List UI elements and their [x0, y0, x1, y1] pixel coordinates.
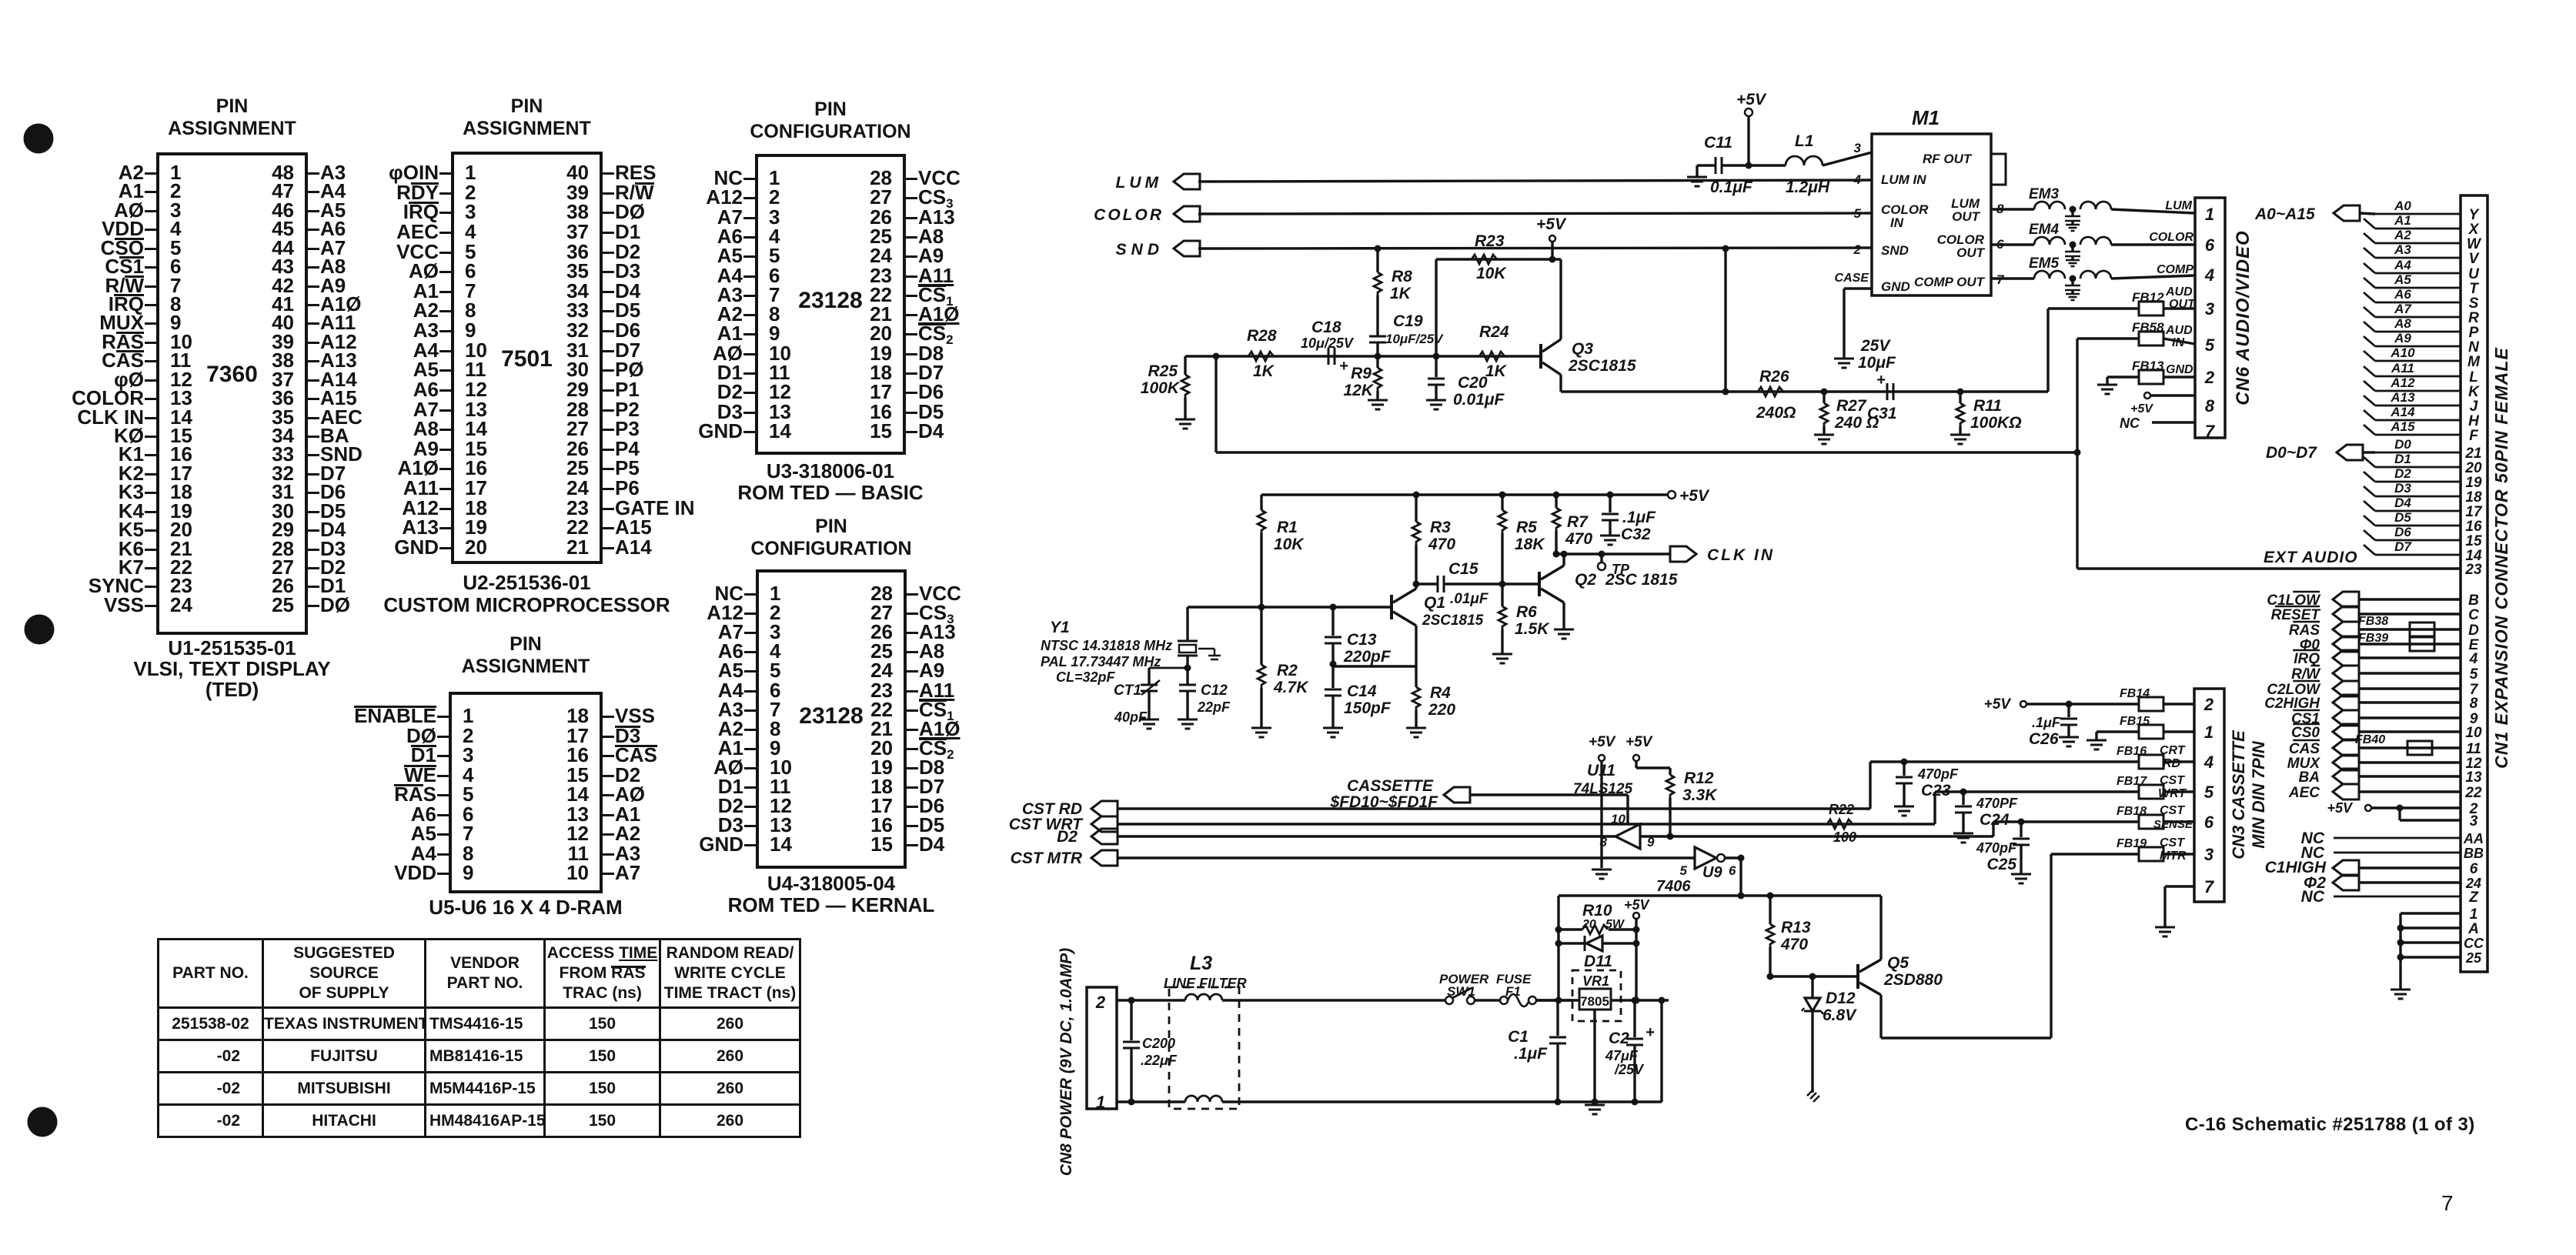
svg-text:470pF: 470pF	[1976, 840, 2017, 856]
svg-text:CC: CC	[2464, 936, 2484, 951]
svg-text:A3: A3	[2394, 242, 2411, 257]
svg-text:470PF: 470PF	[1976, 796, 2018, 811]
svg-text:5W: 5W	[1605, 918, 1625, 931]
svg-text:21: 21	[2464, 446, 2481, 462]
svg-text:NTSC 14.31818 MHz: NTSC 14.31818 MHz	[1041, 638, 1172, 653]
svg-text:.1μF: .1μF	[2032, 715, 2061, 730]
svg-text:4.7K: 4.7K	[1273, 679, 1309, 696]
svg-text:+: +	[1645, 1024, 1655, 1041]
svg-text:7: 7	[2205, 422, 2216, 441]
svg-text:+5V: +5V	[1625, 734, 1653, 750]
svg-text:1: 1	[2470, 906, 2478, 923]
svg-text:R24: R24	[1479, 323, 1509, 341]
svg-text:.1μF: .1μF	[1622, 509, 1656, 526]
svg-text:C32: C32	[1621, 526, 1651, 543]
svg-text:220pF: 220pF	[1343, 648, 1392, 666]
svg-text:CN6 AUDIO/VIDEO: CN6 AUDIO/VIDEO	[2233, 230, 2254, 405]
svg-text:FB39: FB39	[2358, 632, 2388, 645]
svg-text:C20: C20	[1458, 374, 1488, 392]
svg-text:A12: A12	[2390, 375, 2415, 390]
svg-text:Q1: Q1	[1424, 594, 1445, 612]
svg-text:1: 1	[2205, 205, 2214, 224]
svg-text:D2: D2	[2394, 466, 2411, 481]
svg-text:40pF: 40pF	[1114, 709, 1148, 725]
svg-text:.1μF: .1μF	[1514, 1045, 1548, 1063]
svg-text:10: 10	[2465, 725, 2482, 741]
svg-text:EM4: EM4	[2029, 222, 2060, 238]
svg-text:COMP OUT: COMP OUT	[1914, 275, 1986, 289]
svg-text:C14: C14	[1347, 683, 1377, 700]
svg-text:LUM IN: LUM IN	[1881, 172, 1926, 187]
svg-text:R8: R8	[1392, 268, 1412, 285]
svg-text:220: 220	[1428, 701, 1455, 719]
svg-text:AEC: AEC	[2288, 785, 2320, 801]
svg-text:Q3: Q3	[1572, 340, 1593, 358]
svg-text:16: 16	[2465, 519, 2482, 535]
svg-text:D1: D1	[2394, 452, 2411, 466]
svg-text:FB38: FB38	[2358, 615, 2388, 628]
svg-text:A4: A4	[2394, 258, 2411, 272]
svg-text:23: 23	[2464, 562, 2482, 578]
svg-text:10K: 10K	[1476, 265, 1507, 282]
svg-text:SND: SND	[1881, 243, 1909, 258]
svg-text:LINE FILTER: LINE FILTER	[1164, 976, 1247, 991]
svg-text:M: M	[2467, 354, 2481, 370]
svg-text:0.01μF: 0.01μF	[1453, 391, 1505, 409]
svg-text:A5: A5	[2394, 272, 2411, 287]
svg-text:D11: D11	[1584, 953, 1612, 970]
svg-text:Q2: Q2	[1575, 571, 1596, 589]
svg-text:8: 8	[2205, 396, 2215, 416]
svg-text:1: 1	[2204, 723, 2213, 742]
svg-text:+5V: +5V	[1736, 91, 1767, 108]
svg-text:2: 2	[1095, 993, 1106, 1012]
svg-text:AUD: AUD	[2165, 285, 2193, 299]
svg-text:RAS: RAS	[2289, 622, 2320, 639]
svg-text:A7: A7	[2394, 302, 2412, 316]
svg-text:1K: 1K	[1485, 362, 1508, 380]
svg-text:C13: C13	[1347, 631, 1377, 649]
svg-text:25V: 25V	[1860, 337, 1891, 355]
svg-text:5: 5	[2204, 783, 2214, 802]
svg-text:18: 18	[2465, 489, 2482, 506]
svg-text:+5V: +5V	[2130, 402, 2153, 416]
svg-text:22pF: 22pF	[1197, 699, 1231, 715]
svg-text:CN3 CASSETTE: CN3 CASSETTE	[2229, 729, 2248, 859]
svg-text:FB58: FB58	[2132, 320, 2164, 335]
svg-text:CST: CST	[2160, 804, 2185, 817]
svg-text:COLOR: COLOR	[1094, 206, 1164, 224]
svg-text:NC: NC	[2301, 888, 2325, 906]
svg-text:Q5: Q5	[1887, 954, 1909, 972]
svg-text:L1: L1	[1795, 132, 1814, 150]
svg-text:A2: A2	[2394, 228, 2411, 242]
svg-text:R6: R6	[1516, 603, 1537, 621]
svg-text:4: 4	[2204, 265, 2214, 285]
svg-text:7: 7	[2204, 877, 2215, 896]
svg-text:12K: 12K	[1343, 382, 1374, 399]
svg-text:1.5K: 1.5K	[1515, 620, 1550, 638]
svg-text:A11: A11	[2391, 361, 2414, 375]
svg-text:N: N	[2468, 339, 2480, 355]
svg-text:C11: C11	[1704, 134, 1732, 152]
svg-text:COLOR: COLOR	[2149, 231, 2193, 244]
svg-text:+5V: +5V	[1679, 487, 1710, 505]
svg-text:3.3K: 3.3K	[1682, 786, 1718, 804]
svg-text:COMP: COMP	[2157, 263, 2193, 276]
svg-text:10K: 10K	[1274, 536, 1305, 553]
svg-text:LUM: LUM	[2165, 199, 2192, 212]
svg-text:A13: A13	[2390, 390, 2415, 405]
svg-text:3: 3	[1854, 141, 1862, 155]
svg-text:RF OUT: RF OUT	[1923, 152, 1973, 166]
svg-text:R28: R28	[1247, 327, 1277, 345]
svg-text:2SC1815: 2SC1815	[1422, 612, 1484, 629]
svg-text:MTR: MTR	[2160, 849, 2187, 863]
svg-text:CN8 POWER (9V DC, 1.0AMP): CN8 POWER (9V DC, 1.0AMP)	[1057, 948, 1075, 1176]
svg-text:13: 13	[2465, 769, 2482, 786]
svg-text:7406: 7406	[1656, 878, 1691, 895]
svg-text:A6: A6	[2394, 287, 2411, 302]
svg-text:100K: 100K	[1141, 379, 1181, 397]
svg-text:D: D	[2468, 622, 2479, 639]
svg-text:2: 2	[2204, 368, 2215, 387]
svg-text:A1: A1	[2394, 213, 2411, 228]
svg-text:C19: C19	[1393, 312, 1423, 330]
svg-text:A14: A14	[2390, 405, 2415, 419]
svg-text:1K: 1K	[1390, 285, 1412, 302]
svg-text:2SD880: 2SD880	[1883, 971, 1943, 989]
svg-text:D3: D3	[2394, 481, 2411, 496]
svg-text:CRT: CRT	[2160, 744, 2186, 757]
svg-text:CT1: CT1	[1114, 683, 1141, 699]
svg-text:17: 17	[2465, 504, 2483, 520]
svg-text:C18: C18	[1311, 319, 1341, 336]
svg-text:CN1 EXPANSION CONNECTOR: CN1 EXPANSION CONNECTOR 50PIN FEMALE	[2491, 347, 2511, 769]
svg-text:C31: C31	[1867, 405, 1897, 422]
svg-text:+5V: +5V	[1536, 215, 1567, 233]
svg-text:100KΩ: 100KΩ	[1970, 414, 2022, 432]
svg-text:22: 22	[2464, 785, 2482, 801]
svg-text:R13: R13	[1781, 919, 1811, 936]
svg-text:C200: C200	[1142, 1036, 1175, 1051]
svg-text:10μF: 10μF	[1858, 354, 1896, 372]
svg-text:GND: GND	[2166, 363, 2193, 376]
svg-text:CS0: CS0	[2291, 725, 2320, 741]
svg-text:R11: R11	[1973, 397, 2002, 415]
svg-text:BA: BA	[2299, 769, 2320, 786]
svg-text:M1: M1	[1912, 106, 1940, 129]
svg-text:Y: Y	[2469, 207, 2481, 223]
svg-text:CASE: CASE	[1835, 272, 1870, 285]
svg-text:S: S	[2469, 295, 2479, 312]
svg-text:R4: R4	[1430, 684, 1451, 702]
svg-text:6: 6	[2205, 235, 2215, 255]
svg-text:R12: R12	[1684, 769, 1714, 787]
svg-text:5: 5	[2205, 335, 2215, 355]
svg-text:FB17: FB17	[2117, 775, 2147, 788]
svg-text:EM3: EM3	[2029, 186, 2060, 202]
svg-text:P: P	[2469, 325, 2479, 341]
svg-text:R9: R9	[1351, 365, 1372, 382]
svg-text:1K: 1K	[1253, 362, 1275, 380]
svg-text:R7: R7	[1567, 513, 1589, 531]
svg-text:C25: C25	[1986, 856, 2016, 873]
svg-text:+: +	[1876, 372, 1886, 389]
svg-text:+5V: +5V	[1624, 897, 1651, 913]
svg-text:Z: Z	[2468, 890, 2479, 906]
svg-text:9: 9	[1647, 835, 1655, 849]
svg-text:L: L	[2469, 369, 2478, 386]
svg-text:GND: GND	[1881, 279, 1910, 294]
svg-text:D4: D4	[2394, 496, 2411, 510]
svg-text:R10: R10	[1582, 902, 1612, 920]
svg-text:R5: R5	[1516, 519, 1537, 536]
svg-text:IN: IN	[1890, 215, 1904, 230]
svg-text:NC: NC	[2120, 416, 2140, 431]
svg-text:D0: D0	[2394, 437, 2411, 452]
svg-text:U: U	[2468, 266, 2480, 282]
svg-text:MIN DIN 7PIN: MIN DIN 7PIN	[2249, 740, 2268, 848]
svg-text:A10: A10	[2390, 345, 2415, 360]
svg-text:WRT: WRT	[2158, 787, 2187, 800]
svg-text:K: K	[2468, 384, 2480, 400]
svg-text:18K: 18K	[1515, 536, 1545, 553]
svg-text:C: C	[2468, 607, 2479, 623]
svg-text:20: 20	[1582, 918, 1596, 931]
svg-text:150pF: 150pF	[1344, 699, 1392, 717]
svg-text:A15: A15	[2390, 419, 2415, 434]
svg-text:FB19: FB19	[2117, 837, 2147, 850]
svg-text:D12: D12	[1826, 990, 1856, 1007]
svg-text:FB12: FB12	[2132, 290, 2164, 305]
svg-text:R: R	[2468, 310, 2479, 326]
svg-text:FB15: FB15	[2120, 715, 2150, 728]
svg-text:AUD: AUD	[2165, 324, 2193, 337]
svg-text:15: 15	[2465, 533, 2482, 549]
svg-text:CAS: CAS	[2289, 741, 2320, 757]
svg-text:C12: C12	[1201, 683, 1228, 699]
svg-text:47μF: 47μF	[1605, 1048, 1639, 1063]
svg-text:EM5: EM5	[2029, 255, 2060, 272]
svg-text:RD: RD	[2163, 757, 2181, 770]
svg-text:F1: F1	[1505, 984, 1521, 999]
svg-text:C26: C26	[2029, 730, 2059, 748]
svg-text:C2: C2	[1609, 1030, 1629, 1047]
svg-text:+: +	[1339, 358, 1348, 375]
svg-text:470: 470	[1780, 936, 1808, 953]
svg-text:2SC1815: 2SC1815	[1568, 357, 1636, 375]
svg-text:19: 19	[2465, 475, 2482, 491]
svg-text:CASSETTE: CASSETTE	[1347, 777, 1434, 795]
svg-text:10: 10	[1611, 812, 1625, 826]
svg-text:5: 5	[1680, 863, 1688, 878]
svg-text:A: A	[2467, 921, 2479, 937]
svg-text:2: 2	[1853, 242, 1862, 257]
svg-text:FB14: FB14	[2120, 687, 2150, 700]
svg-text:10μ/25V: 10μ/25V	[1301, 335, 1355, 351]
svg-text:3: 3	[2470, 813, 2478, 829]
svg-text:OUT: OUT	[2169, 298, 2196, 311]
svg-text:SENSE: SENSE	[2153, 818, 2193, 831]
svg-text:6.8V: 6.8V	[1823, 1006, 1857, 1024]
svg-text:C1: C1	[1508, 1028, 1529, 1046]
svg-text:A9: A9	[2394, 331, 2411, 345]
svg-text:FB16: FB16	[2117, 745, 2147, 758]
svg-text:24: 24	[2465, 876, 2481, 891]
svg-text:CL=32pF: CL=32pF	[1056, 669, 1116, 685]
svg-text:U9: U9	[1702, 864, 1722, 881]
svg-text:D5: D5	[2394, 510, 2411, 525]
svg-text:R27: R27	[1836, 397, 1867, 415]
svg-text:L3: L3	[1190, 953, 1212, 974]
svg-text:CST: CST	[2160, 774, 2185, 787]
svg-text:+5V: +5V	[1984, 696, 2012, 713]
svg-text:CST MTR: CST MTR	[1011, 849, 1083, 867]
svg-text:R3: R3	[1430, 519, 1451, 536]
svg-text:6: 6	[2204, 813, 2214, 832]
svg-text:470pF: 470pF	[1917, 766, 1959, 782]
svg-text:SW1: SW1	[1447, 984, 1475, 999]
svg-text:IN: IN	[2172, 336, 2184, 349]
svg-text:R26: R26	[1759, 368, 1789, 386]
svg-text:FB13: FB13	[2132, 359, 2164, 373]
svg-text:BB: BB	[2464, 846, 2484, 861]
svg-text:R25: R25	[1148, 362, 1178, 380]
svg-text:A0: A0	[2394, 199, 2411, 213]
svg-text:4: 4	[2469, 651, 2478, 667]
svg-text:.22μF: .22μF	[1141, 1053, 1178, 1068]
svg-text:+5V: +5V	[1589, 734, 1616, 750]
svg-text:SND: SND	[1116, 241, 1164, 259]
svg-text:CLK IN: CLK IN	[1707, 546, 1775, 564]
svg-text:J: J	[2470, 399, 2478, 415]
svg-text:240Ω: 240Ω	[1756, 404, 1796, 422]
svg-text:11: 11	[2466, 741, 2481, 757]
svg-text:TP: TP	[1612, 562, 1630, 577]
svg-text:Y1: Y1	[1050, 619, 1070, 636]
svg-text:D6: D6	[2394, 525, 2411, 539]
svg-text:$FD10~$FD1F: $FD10~$FD1F	[1330, 793, 1439, 811]
svg-text:R2: R2	[1277, 662, 1298, 679]
svg-text:R1: R1	[1277, 519, 1298, 536]
svg-text:+5V: +5V	[2327, 800, 2354, 816]
svg-text:V: V	[2469, 251, 2480, 267]
svg-text:X: X	[2468, 222, 2480, 238]
svg-text:74LS125: 74LS125	[1573, 781, 1633, 797]
svg-text:EXT AUDIO: EXT AUDIO	[2264, 549, 2358, 566]
svg-text:CST: CST	[2160, 836, 2185, 849]
svg-text:LUM: LUM	[1116, 174, 1163, 192]
svg-text:H: H	[2468, 413, 2480, 429]
svg-text:3: 3	[2205, 299, 2214, 319]
svg-text:2: 2	[2203, 695, 2214, 714]
svg-text:VR1: VR1	[1582, 973, 1609, 989]
svg-text:3: 3	[2204, 845, 2213, 864]
svg-text:FB40: FB40	[2355, 733, 2385, 746]
svg-text:W: W	[2467, 236, 2482, 252]
svg-text:470: 470	[1565, 530, 1592, 548]
svg-text:1: 1	[1096, 1093, 1105, 1112]
svg-text:470: 470	[1428, 536, 1455, 553]
svg-text:F: F	[2469, 428, 2479, 444]
svg-text:B: B	[2468, 592, 2479, 609]
svg-text:4: 4	[2203, 753, 2213, 772]
svg-text:7805: 7805	[1580, 994, 1609, 1009]
svg-text:D7: D7	[2394, 539, 2412, 554]
svg-text:PAL 17.73447 MHz: PAL 17.73447 MHz	[1041, 654, 1161, 669]
svg-text:.01μF: .01μF	[1450, 591, 1489, 607]
svg-text:5: 5	[2470, 666, 2478, 683]
svg-text:25: 25	[2465, 950, 2482, 966]
svg-text:A8: A8	[2394, 316, 2411, 331]
svg-text:8: 8	[2470, 696, 2478, 712]
svg-text:R22: R22	[1829, 802, 1854, 817]
svg-text:OUT: OUT	[1956, 245, 1986, 260]
svg-text:/25V: /25V	[1614, 1062, 1645, 1077]
svg-text:6: 6	[2470, 861, 2478, 877]
svg-text:A0~A15: A0~A15	[2254, 205, 2315, 223]
svg-text:FB18: FB18	[2117, 805, 2147, 818]
svg-text:T: T	[2469, 281, 2479, 297]
svg-text:OUT: OUT	[1952, 209, 1981, 224]
svg-text:COLOR: COLOR	[1881, 202, 1929, 217]
svg-text:AA: AA	[2463, 831, 2484, 846]
svg-text:D2: D2	[1057, 828, 1078, 846]
svg-text:D0~D7: D0~D7	[2266, 444, 2317, 462]
svg-text:20: 20	[2464, 460, 2482, 476]
svg-text:R23: R23	[1475, 232, 1505, 250]
svg-text:C15: C15	[1448, 560, 1478, 578]
svg-text:6: 6	[1729, 863, 1736, 878]
